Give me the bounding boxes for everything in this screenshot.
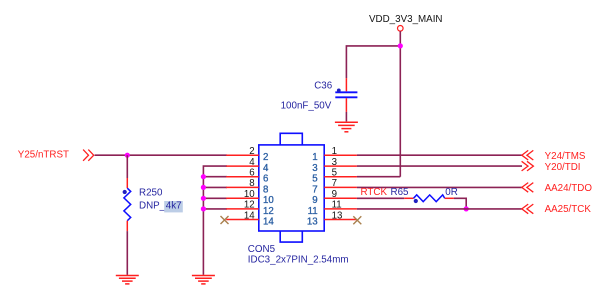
node: bus junction pin 10 xyxy=(201,196,206,201)
ground (C36) xyxy=(335,122,358,132)
pin 5 xyxy=(312,168,357,185)
svg-text:4k7: 4k7 xyxy=(166,201,182,212)
pin 4 xyxy=(226,157,269,174)
node: VDD junction xyxy=(398,43,403,48)
wire: pin 10 branch xyxy=(203,197,227,199)
wire: R250 to ground xyxy=(126,231,128,275)
no-connect X pin 14 xyxy=(221,216,229,224)
power port VDD_3V3_MAIN xyxy=(369,14,443,31)
svg-text:0R: 0R xyxy=(445,187,458,198)
svg-text:12: 12 xyxy=(263,206,274,217)
wire: pin 9 to R65 xyxy=(357,197,404,199)
wire: ground bus for pins 4-12 xyxy=(203,166,227,275)
no-connect X pin 13 xyxy=(353,216,361,224)
ground (bus) xyxy=(192,276,215,284)
svg-text:AA25/TCK: AA25/TCK xyxy=(545,204,592,215)
svg-text:C36: C36 xyxy=(314,80,333,91)
svg-text:Y20/TDI: Y20/TDI xyxy=(545,162,581,173)
svg-text:5: 5 xyxy=(332,168,337,179)
wire: VDD vertical drop to pin 5 xyxy=(399,31,401,177)
wire: pin 1 to Y24/TMS xyxy=(357,154,522,156)
pin 10 xyxy=(226,189,274,206)
pin 2 xyxy=(226,146,268,163)
resistor R250 xyxy=(123,178,183,231)
port chevron Y20/TDI xyxy=(522,161,534,171)
svg-text:11: 11 xyxy=(332,200,342,211)
svg-text:4: 4 xyxy=(263,163,269,174)
resistor R65 xyxy=(391,187,458,203)
wire: pin 8 branch xyxy=(203,186,227,188)
svg-text:RTCK: RTCK xyxy=(361,187,388,198)
wire: pin 3 to Y20/TDI xyxy=(357,165,522,167)
svg-text:1: 1 xyxy=(312,152,317,163)
pin 8 xyxy=(226,178,268,195)
svg-text:8: 8 xyxy=(263,184,268,195)
node: bus junction pin 6 xyxy=(201,174,206,179)
port chevron Y24/TMS xyxy=(522,150,534,160)
svg-text:AA24/TDO: AA24/TDO xyxy=(545,183,593,194)
node: bus junction pin 8 xyxy=(201,185,206,190)
capacitor C36 xyxy=(281,78,358,112)
svg-text:1: 1 xyxy=(332,146,337,157)
svg-text:3: 3 xyxy=(332,157,337,168)
port chevron Y25/nTRST xyxy=(83,150,94,161)
svg-text:CON5: CON5 xyxy=(248,244,276,255)
pin 7 xyxy=(312,178,357,195)
svg-text:3: 3 xyxy=(312,163,317,174)
svg-text:7: 7 xyxy=(332,178,337,189)
wire: pin 11 to AA25/TCK xyxy=(357,208,522,210)
svg-text:Y25/nTRST: Y25/nTRST xyxy=(18,150,69,161)
pin 3 xyxy=(312,157,357,174)
svg-text:12: 12 xyxy=(244,200,255,211)
svg-text:14: 14 xyxy=(244,210,255,221)
node: bus junction pin 12 xyxy=(201,206,206,211)
connector CON5 body xyxy=(259,133,324,242)
node: junction on pin 11 wire xyxy=(464,206,469,211)
pin 14 xyxy=(226,210,274,227)
wire: pin 12 branch xyxy=(203,208,227,210)
pin 9 xyxy=(312,189,357,206)
svg-text:14: 14 xyxy=(263,216,274,227)
svg-text:11: 11 xyxy=(308,206,318,217)
svg-text:13: 13 xyxy=(332,210,343,221)
svg-text:7: 7 xyxy=(312,184,317,195)
svg-text:2: 2 xyxy=(263,152,268,163)
wire: pin 7 to AA24/TDO xyxy=(357,186,522,188)
svg-text:2: 2 xyxy=(249,146,254,157)
svg-text:R65: R65 xyxy=(391,187,410,198)
svg-text:10: 10 xyxy=(244,189,255,200)
svg-text:9: 9 xyxy=(312,195,317,206)
svg-text:8: 8 xyxy=(249,178,254,189)
svg-text:Y24/TMS: Y24/TMS xyxy=(545,151,586,162)
ground (R250) xyxy=(116,276,139,284)
pin 6 xyxy=(226,168,268,185)
pin 1 xyxy=(312,146,357,163)
svg-text:13: 13 xyxy=(307,216,318,227)
svg-text:6: 6 xyxy=(249,168,254,179)
port chevron AA25/TCK xyxy=(522,204,534,214)
svg-text:100nF_50V: 100nF_50V xyxy=(281,101,332,112)
wire: VDD horizontal branch to C36 xyxy=(346,46,400,78)
svg-text:VDD_3V3_MAIN: VDD_3V3_MAIN xyxy=(369,14,443,25)
svg-text:IDC3_2x7PIN_2.54mm: IDC3_2x7PIN_2.54mm xyxy=(248,255,349,266)
pin 13 xyxy=(307,210,357,227)
svg-text:4: 4 xyxy=(249,157,255,168)
wire: C36 to ground xyxy=(345,112,347,122)
svg-text:R250: R250 xyxy=(139,187,163,198)
wire: pin 5 to VDD drop xyxy=(357,176,400,178)
wire: R65 to pin 11 net xyxy=(454,198,466,209)
svg-text:10: 10 xyxy=(263,195,274,206)
wire: pin 6 branch xyxy=(203,176,227,178)
wire: junction down to R250 xyxy=(126,155,128,178)
pin 12 xyxy=(226,200,274,217)
port chevron AA24/TDO xyxy=(522,183,534,193)
node: junction at R250 top xyxy=(125,153,130,158)
svg-text:DNP_: DNP_ xyxy=(139,201,166,212)
svg-text:6: 6 xyxy=(263,174,268,185)
wire: Y25/nTRST to pin 2 xyxy=(95,154,227,156)
svg-text:5: 5 xyxy=(312,174,317,185)
pin 11 xyxy=(308,200,357,217)
svg-text:9: 9 xyxy=(332,189,337,200)
